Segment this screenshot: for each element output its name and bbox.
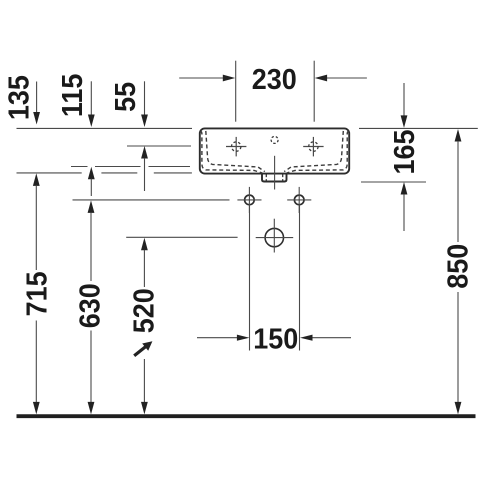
dimension 520 line with arrows	[141, 238, 148, 251]
diagonal pointer arrow at 520	[134, 347, 145, 356]
lower reference line right (165)	[361, 181, 426, 183]
dimension 115 down arrow	[90, 81, 92, 115]
dimension 715 line with arrows	[33, 173, 40, 186]
dimension 150 extension line right	[299, 205, 301, 351]
rim reference line left	[17, 127, 193, 129]
left faucet hole cross	[226, 146, 246, 148]
dimension 630 line with arrows	[88, 200, 95, 213]
overflow dashed circle	[271, 136, 278, 143]
svg-text:135: 135	[3, 75, 35, 120]
svg-text:630: 630	[74, 283, 106, 328]
svg-text:850: 850	[442, 244, 474, 289]
bowl inner dashed contour inner-left	[206, 131, 265, 172]
drain centerline	[274, 156, 276, 190]
drain level line (520)	[126, 236, 237, 238]
left fixing hole	[245, 195, 255, 205]
right fixing hole	[294, 195, 304, 205]
svg-text:165: 165	[388, 130, 420, 175]
dimension 115 up arrow	[88, 167, 95, 180]
dimension 135 down arrow	[36, 82, 38, 113]
drain stub inner dashed contour	[265, 175, 267, 181]
svg-text:230: 230	[252, 63, 297, 95]
bowl bottom level line (115)	[71, 166, 88, 168]
dimension 230 line and arrows	[179, 77, 224, 79]
dimension 230 extension line right	[313, 61, 315, 122]
dimension 850 line with arrows	[455, 129, 462, 142]
svg-text:520: 520	[128, 288, 160, 333]
svg-text:55: 55	[109, 82, 141, 112]
right faucet hole dashed circle	[309, 142, 318, 151]
svg-text:115: 115	[56, 74, 88, 118]
dimension 230 extension line left	[235, 61, 237, 122]
dimension 150 extension line left	[249, 205, 251, 351]
svg-text:150: 150	[253, 322, 298, 354]
dimension 165 up arrow	[401, 182, 408, 195]
bowl inner dashed contour outer-right	[287, 131, 349, 173]
dimension 165 down arrow	[403, 83, 405, 116]
drain stub	[262, 174, 287, 182]
dimension 55 up arrow	[141, 146, 148, 159]
fixing hole level line (630)	[73, 199, 230, 201]
basin bottom level line (135)	[17, 172, 82, 174]
bowl inner dashed contour inner-right	[284, 131, 343, 172]
faucet level line (55)	[127, 145, 191, 147]
dimension 150 line and arrows	[197, 337, 237, 339]
right faucet hole cross	[303, 146, 323, 148]
washbasin outline	[200, 128, 349, 173]
dimension 55 down arrow	[144, 81, 146, 115]
drain pipe circle	[265, 228, 283, 246]
left faucet hole dashed circle	[232, 142, 241, 151]
svg-text:715: 715	[20, 271, 52, 316]
rim reference line right	[359, 127, 478, 129]
floor line	[17, 414, 476, 418]
bowl inner dashed contour outer-left	[201, 131, 263, 173]
